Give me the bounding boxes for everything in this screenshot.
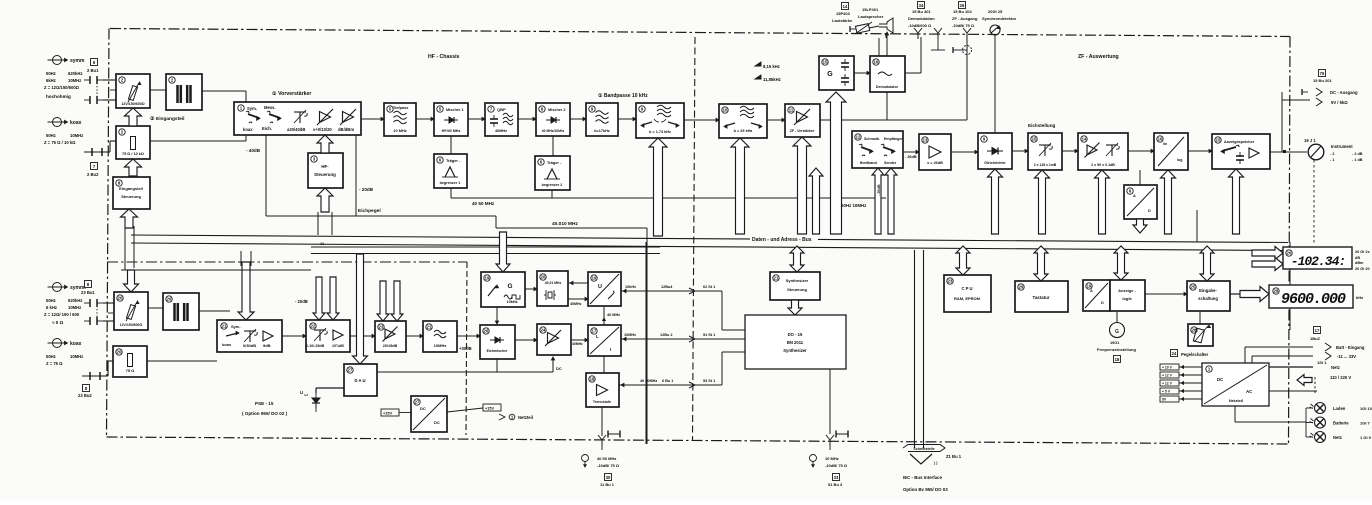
svg-text:Tiefpass: Tiefpass xyxy=(393,106,408,110)
svg-text:U: U xyxy=(300,390,303,395)
svg-text:40MHz: 40MHz xyxy=(570,302,582,306)
svg-text:51 Bu 3: 51 Bu 3 xyxy=(828,482,843,487)
svg-text:Demodulation: Demodulation xyxy=(908,16,935,21)
svg-text:+ 12 V: + 12 V xyxy=(1162,382,1173,386)
svg-text:23: 23 xyxy=(948,279,953,284)
svg-text:b = 25 kHz: b = 25 kHz xyxy=(734,129,753,133)
svg-text:Anzeige -: Anzeige - xyxy=(1118,288,1136,293)
svg-text:-102.34:: -102.34: xyxy=(1291,254,1345,269)
svg-text:HF-: HF- xyxy=(321,164,329,169)
svg-text:11,85kHz: 11,85kHz xyxy=(763,77,781,82)
svg-text:24: 24 xyxy=(1172,351,1177,356)
svg-text:Empfänger: Empfänger xyxy=(884,137,903,141)
svg-text:Batt - Eingang: Batt - Eingang xyxy=(1336,345,1365,350)
svg-text:Träger -: Träger - xyxy=(446,158,461,163)
svg-text:- 20dB: - 20dB xyxy=(295,299,308,304)
svg-text:dBm: dBm xyxy=(1355,261,1364,265)
svg-text:DC: DC xyxy=(1217,377,1224,382)
svg-text:20 Gl 2x: 20 Gl 2x xyxy=(1355,250,1370,254)
svg-text:begrenzer 2: begrenzer 2 xyxy=(542,183,563,187)
svg-text:b=17kHz: b=17kHz xyxy=(594,129,610,133)
svg-text:34: 34 xyxy=(919,3,924,8)
svg-text:ref: ref xyxy=(304,393,308,397)
svg-text:Lautstärke: Lautstärke xyxy=(832,18,853,23)
svg-text:Laden: Laden xyxy=(1333,406,1346,411)
svg-text:begrenzer 1: begrenzer 1 xyxy=(440,181,461,185)
svg-text:19 J 1: 19 J 1 xyxy=(1304,138,1316,143)
svg-text:23: 23 xyxy=(379,325,384,330)
svg-text:Anzeigespeicher: Anzeigespeicher xyxy=(1224,140,1255,144)
svg-text:A: A xyxy=(1133,194,1136,198)
svg-text:v = 26dB: v = 26dB xyxy=(927,161,943,165)
svg-text:Eich.: Eich. xyxy=(262,126,272,131)
svg-text:-11 ... 33V: -11 ... 33V xyxy=(1337,354,1356,359)
svg-text:L: L xyxy=(596,334,599,339)
svg-text:b = 1.74 kHz: b = 1.74 kHz xyxy=(649,130,671,134)
svg-text:Z = 75 Ω / 10 kΩ: Z = 75 Ω / 10 kΩ xyxy=(44,140,76,145)
svg-text:A: A xyxy=(1090,289,1093,293)
svg-text:Option Bv 955/ DO 03: Option Bv 955/ DO 03 xyxy=(903,487,948,492)
svg-text:koax: koax xyxy=(222,342,232,347)
svg-text:Tastatur: Tastatur xyxy=(1033,295,1050,300)
svg-text:5V / 5kΩ: 5V / 5kΩ xyxy=(1331,100,1348,105)
svg-text:Netz: Netz xyxy=(1333,435,1342,440)
svg-text:40 50 MHz: 40 50 MHz xyxy=(597,456,616,461)
svg-text:10MHz: 10MHz xyxy=(624,333,636,337)
svg-text:+ 5 V: + 5 V xyxy=(1162,390,1171,394)
svg-text:DC: DC xyxy=(556,366,562,371)
svg-text:Eichmischer: Eichmischer xyxy=(487,349,508,353)
svg-text:IEC - Bus Interface: IEC - Bus Interface xyxy=(903,475,943,480)
svg-text:20: 20 xyxy=(541,275,546,280)
svg-text:12V/150/600Ω: 12V/150/600Ω xyxy=(121,102,144,106)
svg-text:Mischer 2: Mischer 2 xyxy=(548,108,566,112)
svg-text:Z1 Bu 1: Z1 Bu 1 xyxy=(946,454,962,459)
svg-text:②: ② xyxy=(150,116,155,122)
svg-text:10MHz: 10MHz xyxy=(68,78,81,83)
svg-text:13: 13 xyxy=(923,138,928,143)
svg-text:10: 10 xyxy=(723,108,728,113)
svg-text:27: 27 xyxy=(415,400,420,405)
svg-text:15LP401: 15LP401 xyxy=(862,7,879,12)
svg-text:15 Bu 401: 15 Bu 401 xyxy=(912,9,931,14)
svg-text:40MHz: 40MHz xyxy=(572,342,583,346)
svg-text:Schnittstelle: Schnittstelle xyxy=(913,447,934,451)
svg-text:12: 12 xyxy=(856,135,861,140)
svg-text:2 x 50 x 0.1dB: 2 x 50 x 0.1dB xyxy=(1091,163,1115,167)
svg-text:14: 14 xyxy=(1082,137,1087,142)
svg-text:5V: 5V xyxy=(1162,398,1167,402)
svg-text:Netzteil: Netzteil xyxy=(518,415,533,420)
svg-text:Sym.: Sym. xyxy=(247,106,257,111)
svg-text:D A U: D A U xyxy=(354,378,365,383)
svg-text:- 2 dB: - 2 dB xyxy=(1352,152,1363,156)
svg-text:Steuerung: Steuerung xyxy=(314,172,336,177)
svg-text:- 1: - 1 xyxy=(1330,158,1334,162)
svg-text:6kHz: 6kHz xyxy=(46,78,56,83)
svg-text:Sym.: Sym. xyxy=(231,324,241,329)
svg-text:9600.000: 9600.000 xyxy=(1281,291,1346,308)
svg-text:+ 12 V: + 12 V xyxy=(1162,374,1173,378)
svg-text:Sender: Sender xyxy=(884,161,897,165)
svg-text:10 MHz: 10 MHz xyxy=(825,456,839,461)
svg-text:23 Bu2: 23 Bu2 xyxy=(78,393,92,398)
svg-text:1 Gl 9: 1 Gl 9 xyxy=(1360,435,1372,440)
svg-text:40 MHz: 40 MHz xyxy=(607,313,620,317)
svg-text:Z = 12Ω/ 150 / 600: Z = 12Ω/ 150 / 600 xyxy=(44,312,80,317)
svg-text:-10dB/ 75 Ω: -10dB/ 75 Ω xyxy=(597,463,620,468)
svg-text:10¾dB: 10¾dB xyxy=(332,344,344,348)
svg-text:19: 19 xyxy=(1087,284,1092,289)
svg-text:PSE - 15: PSE - 15 xyxy=(255,401,274,406)
svg-text:50Hz: 50Hz xyxy=(46,354,56,359)
svg-text:16: 16 xyxy=(874,60,879,65)
svg-text:-10dB/600 Ω: -10dB/600 Ω xyxy=(908,23,932,28)
svg-text:G: G xyxy=(827,71,833,78)
svg-text:15: 15 xyxy=(1032,137,1037,142)
svg-text:21: 21 xyxy=(774,276,779,281)
svg-text:Netz: Netz xyxy=(1331,365,1340,370)
svg-text:26: 26 xyxy=(484,329,489,334)
svg-text:dB/dBm: dB/dBm xyxy=(338,127,354,132)
svg-text:15 Bu 201: 15 Bu 201 xyxy=(1313,78,1332,83)
svg-text:2 Bu2: 2 Bu2 xyxy=(87,172,99,177)
svg-text:① Vorverstärker: ① Vorverstärker xyxy=(272,91,311,97)
svg-text:33: 33 xyxy=(834,475,839,480)
svg-text:Eingangsteil: Eingangsteil xyxy=(119,186,143,191)
svg-text:D: D xyxy=(1101,301,1104,305)
svg-text:10MHz: 10MHz xyxy=(70,133,83,138)
svg-text:19: 19 xyxy=(592,276,597,281)
svg-text:50Hz: 50Hz xyxy=(46,71,56,76)
svg-text:dB: dB xyxy=(1355,256,1360,260)
svg-text:0-10/-25dB: 0-10/-25dB xyxy=(306,344,325,348)
svg-text:- 26dB: - 26dB xyxy=(905,155,917,159)
svg-text:10MHz: 10MHz xyxy=(70,354,83,359)
svg-text:Eichpegel: Eichpegel xyxy=(358,208,381,214)
svg-text:110 / 220 V: 110 / 220 V xyxy=(1330,375,1351,380)
svg-text:18: 18 xyxy=(1115,357,1120,362)
svg-text:Eichstellung: Eichstellung xyxy=(1028,123,1056,128)
svg-text:DC: DC xyxy=(434,420,440,425)
svg-text:Steuerung: Steuerung xyxy=(121,194,141,199)
svg-text:+15V: +15V xyxy=(383,412,392,416)
svg-text:QBP: QBP xyxy=(497,107,506,112)
svg-text:12Bu4: 12Bu4 xyxy=(661,285,673,289)
svg-text:- 20dB: - 20dB xyxy=(877,184,881,196)
svg-text:D: D xyxy=(1148,209,1151,213)
svg-text:50Hz: 50Hz xyxy=(46,298,56,303)
svg-text:Frequenzeinstellung: Frequenzeinstellung xyxy=(1097,347,1136,352)
svg-text:+30dB: +30dB xyxy=(459,346,472,351)
svg-text:① Bandpasse 10 kHz: ① Bandpasse 10 kHz xyxy=(598,93,648,99)
svg-text:0/30dB: 0/30dB xyxy=(243,343,256,348)
svg-text:I: I xyxy=(610,347,611,352)
svg-text:620kHz: 620kHz xyxy=(68,71,82,76)
svg-text:ZF - Verstärker: ZF - Verstärker xyxy=(790,129,815,133)
svg-text:30: 30 xyxy=(606,475,611,480)
svg-text:6 Bu 1: 6 Bu 1 xyxy=(662,379,673,383)
svg-text:- 40dB: - 40dB xyxy=(246,148,261,153)
svg-text:- 2: - 2 xyxy=(1330,152,1334,156)
svg-text:62 St 1: 62 St 1 xyxy=(703,285,715,289)
svg-text:+15V: +15V xyxy=(485,407,494,411)
svg-text:HF/40 MHz: HF/40 MHz xyxy=(442,129,461,133)
svg-text:G: G xyxy=(1115,329,1119,335)
svg-text:15P403: 15P403 xyxy=(836,11,851,16)
svg-text:Steuerung: Steuerung xyxy=(787,287,807,292)
svg-text:6 kHz: 6 kHz xyxy=(46,305,57,310)
svg-text:10kHz: 10kHz xyxy=(625,285,636,289)
svg-text:17: 17 xyxy=(592,329,597,334)
svg-text:23 Bu1: 23 Bu1 xyxy=(81,290,95,295)
svg-text:2 x 128 x 1mB: 2 x 128 x 1mB xyxy=(1034,163,1057,167)
svg-text:20 Gl 20: 20 Gl 20 xyxy=(1355,267,1370,271)
svg-text:25: 25 xyxy=(1191,285,1196,290)
svg-text:Lautsprecher: Lautsprecher xyxy=(858,14,884,19)
svg-text:620kHz: 620kHz xyxy=(68,298,82,303)
svg-text:15: 15 xyxy=(1216,138,1221,143)
svg-text:Synthesizer: Synthesizer xyxy=(783,348,807,353)
svg-text:Schmalb.: Schmalb. xyxy=(864,137,880,141)
svg-text:21: 21 xyxy=(427,325,432,330)
svg-text:40 50MHz: 40 50MHz xyxy=(640,379,657,383)
svg-text:( Option 955/ DO 02 ): ( Option 955/ DO 02 ) xyxy=(242,411,288,416)
svg-text:C P U: C P U xyxy=(961,286,972,291)
svg-text:2 Bu1: 2 Bu1 xyxy=(87,68,99,73)
svg-text:Mess.: Mess. xyxy=(264,105,276,110)
svg-text:U: U xyxy=(598,284,602,290)
svg-text:24: 24 xyxy=(541,328,546,333)
svg-text:v+0/10/20: v+0/10/20 xyxy=(313,127,332,132)
svg-text:Daten - und Adress - Bus: Daten - und Adress - Bus xyxy=(752,237,812,243)
svg-text:log: log xyxy=(1177,158,1182,162)
svg-text:Trennstufe: Trennstufe xyxy=(593,400,611,404)
svg-text:11 Bu 1: 11 Bu 1 xyxy=(600,482,615,487)
svg-text:10MHz: 10MHz xyxy=(434,343,447,348)
svg-text:≈ 0 Ω: ≈ 0 Ω xyxy=(52,320,64,325)
svg-text:DC: DC xyxy=(420,406,426,411)
svg-text:8,15 kHz: 8,15 kHz xyxy=(763,64,780,69)
svg-text:HF - Chassis: HF - Chassis xyxy=(428,54,460,60)
svg-text:50Hz: 50Hz xyxy=(46,133,56,138)
svg-text:14: 14 xyxy=(843,4,848,9)
svg-text:RAM, EPROM: RAM, EPROM xyxy=(954,296,981,301)
svg-text:19: 19 xyxy=(485,276,490,281)
svg-text:Eingangsteil: Eingangsteil xyxy=(156,116,185,122)
svg-text:15 Bu 104: 15 Bu 104 xyxy=(953,9,972,14)
svg-text:11: 11 xyxy=(789,108,794,113)
svg-text:18: 18 xyxy=(590,377,595,382)
svg-text:a20/40dB: a20/40dB xyxy=(287,127,305,132)
svg-text:9dB: 9dB xyxy=(263,343,271,348)
svg-text:22: 22 xyxy=(311,324,316,329)
svg-text:40MHz: 40MHz xyxy=(495,129,507,133)
svg-text:20Gl 25: 20Gl 25 xyxy=(988,9,1003,14)
svg-text:53 St 1: 53 St 1 xyxy=(703,379,715,383)
svg-text:koax: koax xyxy=(70,341,82,347)
svg-text:26: 26 xyxy=(960,3,965,8)
svg-text:Synthesizer: Synthesizer xyxy=(786,278,809,283)
svg-text:G: G xyxy=(507,283,512,290)
svg-text:Breitband: Breitband xyxy=(860,161,877,165)
svg-text:DC - Ausgang: DC - Ausgang xyxy=(1330,90,1358,95)
svg-text:DO - 15: DO - 15 xyxy=(788,332,803,337)
svg-text:1Gl 10: 1Gl 10 xyxy=(1360,406,1372,411)
svg-text:Instrument: Instrument xyxy=(1331,144,1353,149)
svg-text:BN 2011: BN 2011 xyxy=(787,340,804,345)
svg-text:hochohmig: hochohmig xyxy=(46,94,71,99)
svg-text:-10dB/ 75 Ω: -10dB/ 75 Ω xyxy=(825,463,848,468)
svg-text:10kHz: 10kHz xyxy=(507,300,518,304)
svg-text:10 MHz: 10 MHz xyxy=(393,128,406,133)
svg-text:40.010 MHz: 40.010 MHz xyxy=(552,221,578,227)
svg-text:75 Ω / 10 kΩ: 75 Ω / 10 kΩ xyxy=(122,152,144,156)
svg-text:20: 20 xyxy=(118,296,123,301)
svg-text:12V/150/600Ω: 12V/150/600Ω xyxy=(120,323,143,327)
svg-text:Z = 12Ω/150/600Ω: Z = 12Ω/150/600Ω xyxy=(44,85,80,90)
svg-text:12Bu 2: 12Bu 2 xyxy=(660,333,672,337)
svg-text:lin: lin xyxy=(1163,142,1167,146)
svg-text:20: 20 xyxy=(117,350,122,355)
svg-text:Pegelschalter: Pegelschalter xyxy=(1181,352,1209,357)
svg-text:Mischer 1: Mischer 1 xyxy=(446,108,464,112)
svg-text:Demodulator: Demodulator xyxy=(876,85,899,89)
svg-text:15: 15 xyxy=(823,60,828,65)
svg-text:40,01 MHz: 40,01 MHz xyxy=(545,281,562,285)
svg-text:- 20dB: - 20dB xyxy=(359,187,374,192)
svg-text:AC: AC xyxy=(1246,389,1253,394)
svg-text:40 50 MHz: 40 50 MHz xyxy=(472,201,495,206)
svg-text:40 MHz/10kHz: 40 MHz/10kHz xyxy=(542,129,565,133)
svg-text:Eingabe-: Eingabe- xyxy=(1199,288,1217,293)
svg-text:Netzteil: Netzteil xyxy=(1229,398,1243,403)
svg-text:kHz: kHz xyxy=(1356,295,1363,300)
svg-text:75 Ω: 75 Ω xyxy=(126,368,136,373)
svg-text:Träger -: Träger - xyxy=(547,160,562,165)
svg-text:16: 16 xyxy=(1158,137,1163,142)
svg-text:- 1 dB: - 1 dB xyxy=(1352,158,1363,162)
svg-text:51 St 1: 51 St 1 xyxy=(703,333,715,337)
svg-text:28: 28 xyxy=(1274,289,1279,294)
svg-text:Z = 75 Ω: Z = 75 Ω xyxy=(46,361,63,366)
svg-text:koax: koax xyxy=(70,120,82,126)
svg-text:schaltung: schaltung xyxy=(1198,296,1218,301)
svg-text:21: 21 xyxy=(222,324,227,329)
svg-text:76: 76 xyxy=(1320,71,1325,76)
svg-text:koax: koax xyxy=(243,127,253,132)
svg-text:50Hz 10MHz: 50Hz 10MHz xyxy=(841,203,867,208)
svg-text:1SI 1: 1SI 1 xyxy=(1317,360,1327,365)
svg-text:Synchrondetektor: Synchrondetektor xyxy=(982,16,1017,21)
svg-text:+ 10 V: + 10 V xyxy=(1162,366,1173,370)
svg-text:10MHz: 10MHz xyxy=(68,305,81,310)
svg-text:1BuZ: 1BuZ xyxy=(1310,336,1321,341)
svg-text:ZF - Ausgang: ZF - Ausgang xyxy=(952,16,978,21)
svg-text:logik: logik xyxy=(1122,296,1132,301)
svg-text:20: 20 xyxy=(167,297,172,302)
svg-text:Gleichrichter: Gleichrichter xyxy=(984,161,1006,165)
svg-text:29: 29 xyxy=(1019,285,1024,290)
svg-text:17: 17 xyxy=(1315,328,1320,333)
svg-text:symm: symm xyxy=(70,58,85,64)
svg-text:27: 27 xyxy=(348,368,353,373)
svg-text:1Gl 7: 1Gl 7 xyxy=(1360,421,1371,426)
svg-text:ZF - Auswertung: ZF - Auswertung xyxy=(1078,54,1119,60)
svg-text:19G1: 19G1 xyxy=(1110,341,1119,345)
svg-text:-10dB/ 75 Ω: -10dB/ 75 Ω xyxy=(952,23,975,28)
svg-text:Batterie: Batterie xyxy=(1333,421,1349,426)
svg-text:20/15dB: 20/15dB xyxy=(383,344,398,348)
